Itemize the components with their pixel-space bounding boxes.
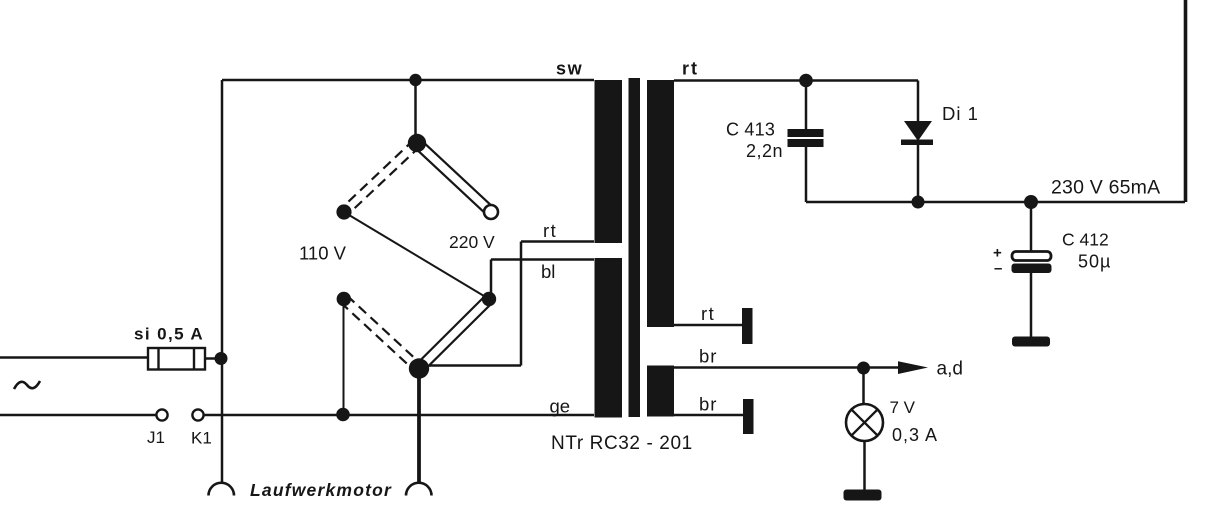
svg-text:230 V 65mA: 230 V 65mA xyxy=(1051,177,1160,199)
svg-text:br: br xyxy=(699,394,717,415)
svg-text:sw: sw xyxy=(556,59,583,79)
svg-text:ge: ge xyxy=(550,396,571,417)
svg-text:+: + xyxy=(993,245,1002,262)
svg-text:Di 1: Di 1 xyxy=(942,103,979,124)
svg-text:rt: rt xyxy=(701,303,715,324)
svg-text:bl: bl xyxy=(541,261,555,282)
svg-text:C 413: C 413 xyxy=(726,120,775,140)
svg-text:7 V: 7 V xyxy=(890,398,916,417)
svg-text:rt: rt xyxy=(543,220,557,241)
svg-text:0,3 A: 0,3 A xyxy=(892,425,938,445)
svg-text:–: – xyxy=(994,260,1002,277)
svg-text:50µ: 50µ xyxy=(1078,252,1111,272)
svg-text:a,d: a,d xyxy=(937,359,963,380)
svg-text:C 412: C 412 xyxy=(1062,230,1109,250)
svg-text:K1: K1 xyxy=(191,429,212,448)
svg-text:si 0,5 A: si 0,5 A xyxy=(134,325,204,344)
svg-text:Laufwerkmotor: Laufwerkmotor xyxy=(250,480,392,500)
svg-text:rt: rt xyxy=(682,59,699,79)
svg-text:110 V: 110 V xyxy=(299,243,347,264)
svg-text:2,2n: 2,2n xyxy=(746,141,783,161)
svg-text:NTr RC32 - 201: NTr RC32 - 201 xyxy=(551,433,693,454)
svg-text:220 V: 220 V xyxy=(449,232,495,252)
svg-text:J1: J1 xyxy=(147,428,165,447)
svg-text:br: br xyxy=(699,346,717,367)
